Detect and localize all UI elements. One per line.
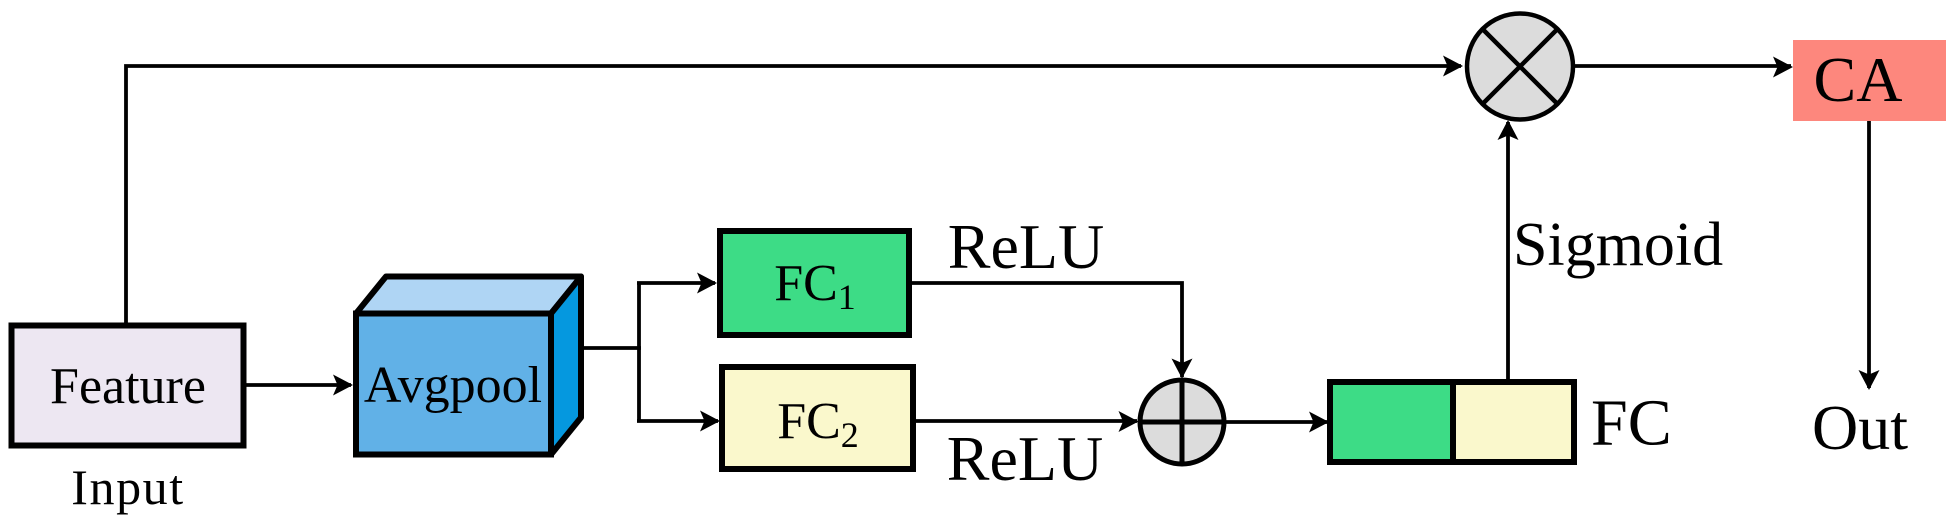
box FC2	[722, 367, 913, 469]
cube Avgpool side face	[551, 277, 581, 455]
svg-text:Avgpool: Avgpool	[364, 357, 542, 414]
svg-text:ReLU: ReLU	[947, 423, 1103, 494]
svg-text:Out: Out	[1812, 392, 1908, 463]
add node circle-plus	[1140, 380, 1224, 464]
box Feature	[12, 326, 244, 446]
svg-text:CA: CA	[1814, 44, 1903, 115]
cube Avgpool top face	[356, 277, 581, 314]
wire split vertical	[637, 283, 641, 421]
box FC combined yellow half	[1453, 382, 1574, 462]
cube Avgpool front face	[356, 314, 551, 455]
wire Sigmoid arrow FC block to multiply node	[1506, 122, 1510, 381]
wire CA to Out	[1867, 121, 1871, 388]
arrowhead into multiply node	[1443, 56, 1463, 77]
wire split to FC2	[637, 419, 718, 423]
svg-text:Sigmoid: Sigmoid	[1513, 211, 1723, 279]
multiply node circle-times	[1467, 14, 1573, 120]
box FC combined outline	[1330, 382, 1574, 462]
wire FC1 to add node	[912, 283, 1182, 377]
wire FC2 to add node	[916, 419, 1137, 423]
svg-text:Feature: Feature	[50, 358, 206, 415]
box FC combined divider	[1450, 382, 1456, 462]
box CA	[1793, 40, 1946, 121]
box FC1	[720, 231, 909, 335]
wire bypass from Feature top to multiply node	[126, 66, 1461, 327]
box FC combined green half	[1330, 382, 1453, 462]
wire split to FC1	[637, 281, 715, 285]
svg-text:ReLU: ReLU	[948, 211, 1104, 282]
wire add node to FC block	[1224, 420, 1327, 424]
wire Avgpool to split node	[584, 346, 641, 350]
wire multiply node to CA	[1573, 64, 1791, 68]
svg-text:Input: Input	[71, 459, 185, 515]
wire Feature to Avgpool	[245, 383, 351, 387]
svg-text:FC: FC	[1591, 387, 1672, 460]
